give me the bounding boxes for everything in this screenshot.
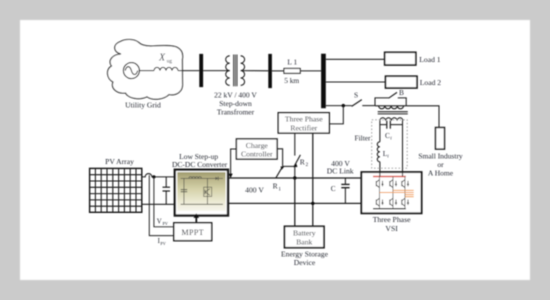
label 400V DC Link — [327, 159, 354, 175]
label Ipv — [158, 238, 166, 246]
wire S to transformer B — [362, 105, 375, 107]
transformer B core — [378, 112, 408, 114]
rectifier left output wire — [294, 133, 296, 156]
wire node to battery — [294, 178, 296, 226]
svg-text:PV Array: PV Array — [105, 157, 134, 166]
Small Industry load — [436, 128, 445, 150]
IGBT Q4 — [390, 198, 397, 206]
400V dc bus — [227, 177, 362, 179]
svg-text:A Home: A Home — [428, 169, 454, 178]
label R1 — [273, 182, 282, 193]
wire bus1 to transformer — [203, 70, 230, 72]
IGBT Q6 — [402, 198, 409, 206]
input capacitor — [163, 177, 171, 204]
node on S wire — [342, 104, 345, 107]
transformer B primary wire — [375, 105, 406, 107]
wire L1 to bus3 — [300, 70, 321, 72]
Ipv sense wire — [149, 175, 174, 236]
bus bar 3 — [321, 54, 326, 108]
svg-text:Load 2: Load 2 — [420, 78, 442, 87]
wire to rectifier input — [330, 106, 344, 124]
Vpv sense wire — [154, 177, 174, 227]
svg-text:Filter: Filter — [354, 133, 371, 142]
label Cf — [385, 132, 392, 141]
label Energy Storage Device — [281, 250, 329, 267]
filter dashed box — [372, 120, 408, 168]
PV- wire — [142, 203, 175, 205]
VSI phase lines — [379, 190, 413, 196]
label Vpv — [157, 218, 168, 226]
DC-DC converter box — [175, 170, 228, 216]
wire to Load2 — [326, 81, 386, 83]
charge controller input wire — [277, 149, 283, 167]
node Vpv tap — [152, 175, 155, 178]
label 22kV/400V Step-down Transfromer — [214, 91, 257, 117]
line L1 — [284, 69, 300, 74]
switch R1 — [276, 166, 284, 177]
svg-text:Battery: Battery — [293, 228, 316, 237]
node battery+ — [293, 176, 296, 179]
VSI dc+ rail — [373, 176, 406, 178]
wire to Load1 — [326, 58, 385, 60]
Three Phase Rectifier box — [278, 113, 329, 133]
rectifier right output wire to battery — [312, 133, 314, 226]
label Lf — [383, 150, 389, 159]
wire R2 to bus node — [294, 167, 296, 178]
Load 2 — [386, 76, 418, 88]
utility grid cloud — [108, 39, 183, 99]
transformer T1 right winding — [241, 56, 245, 86]
wire right filter leg to VSI — [402, 121, 404, 173]
IGBT Q1 — [376, 180, 383, 188]
svg-text:22 kV / 400 V: 22 kV / 400 V — [214, 91, 257, 100]
inductor Xug — [154, 67, 178, 70]
svg-text:B: B — [399, 88, 404, 97]
svg-text:L 1: L 1 — [287, 58, 297, 67]
VSI box — [361, 172, 421, 213]
Load 1 — [385, 52, 416, 65]
svg-text:Device: Device — [294, 258, 316, 267]
wire Lf to VSI — [379, 162, 381, 172]
svg-text:Transfromer: Transfromer — [217, 108, 255, 117]
svg-text:400 V: 400 V — [245, 185, 264, 194]
AC source G — [123, 63, 139, 79]
wire winding to Cf node — [379, 121, 381, 142]
MPPT box — [174, 223, 212, 241]
IGBT Q5 — [402, 180, 409, 188]
transformer B bottom winding — [380, 118, 403, 121]
wire bus2 to L1 — [272, 70, 284, 72]
IGBT Q2 — [376, 198, 383, 206]
svg-text:DC Link: DC Link — [327, 167, 354, 176]
svg-text:Bank: Bank — [296, 237, 312, 246]
Battery Bank box — [285, 226, 325, 247]
inductor Lf — [377, 142, 380, 162]
PV+ wire with hop — [142, 174, 175, 177]
transformer B top winding — [379, 106, 404, 109]
svg-text:C: C — [331, 185, 336, 193]
svg-text:PV: PV — [163, 221, 168, 226]
VSI top input stubs — [380, 172, 403, 176]
label R2 — [300, 157, 309, 168]
switch R2 — [294, 155, 301, 167]
dc- rail — [228, 202, 361, 204]
label Xug — [158, 53, 172, 65]
transformer T1 left winding — [226, 56, 230, 86]
capacitor Cf — [380, 121, 403, 129]
wire transformer B to small industry — [406, 106, 439, 128]
MPPT control arrow — [194, 213, 200, 223]
label Three Phase VSI — [373, 215, 411, 233]
svg-text:ug: ug — [167, 59, 173, 65]
svg-text:Rectifier: Rectifier — [290, 123, 317, 132]
converter diode — [215, 177, 218, 181]
wire transformer to bus2 — [242, 70, 268, 72]
svg-text:Charge: Charge — [246, 141, 269, 150]
svg-text:Load 1: Load 1 — [419, 55, 441, 64]
converter inner circuit — [181, 177, 223, 205]
svg-text:S: S — [354, 91, 358, 100]
node battery- — [311, 202, 314, 205]
VSI dc- rail — [373, 208, 406, 210]
wire source to Xug — [139, 70, 154, 72]
PV array panel — [90, 168, 142, 212]
wire bus3 to switch S — [326, 105, 352, 107]
svg-text:V: V — [157, 218, 162, 225]
transformer T1 core — [234, 55, 237, 87]
svg-text:5 km: 5 km — [284, 76, 299, 85]
bus bar 1 — [199, 54, 203, 87]
charge controller output wire with arrow — [229, 149, 237, 178]
wire Xug to bus1 — [178, 70, 199, 72]
switch S — [352, 100, 362, 107]
svg-text:Utility Grid: Utility Grid — [125, 101, 161, 110]
VSI legs — [379, 177, 405, 209]
label Low Step-up DC-DC Converter — [172, 152, 228, 169]
svg-text:VSI: VSI — [385, 224, 398, 233]
wire link to R2 node — [283, 165, 295, 167]
svg-text:Three Phase: Three Phase — [285, 115, 323, 124]
bus bar 2 — [268, 54, 272, 88]
Charge Controller box — [236, 139, 277, 159]
IGBT Q3 — [390, 180, 397, 188]
svg-text:X: X — [158, 53, 166, 64]
svg-text:PV: PV — [160, 241, 165, 246]
svg-text:Controller: Controller — [241, 150, 273, 159]
svg-text:DC-DC Converter: DC-DC Converter — [172, 160, 228, 169]
capacitor C on dc link — [341, 178, 349, 203]
transformer B bypass switch B — [375, 92, 406, 105]
svg-text:MPPT: MPPT — [182, 228, 205, 237]
